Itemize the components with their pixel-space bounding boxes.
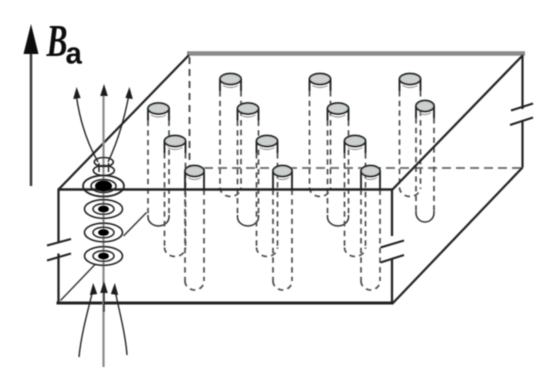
hidden rear-bottom edge: [190, 167, 521, 169]
vortex tube VC3 cap: [345, 136, 366, 153]
Ba field arrow: [30, 44, 33, 186]
break slashes front-right edge: [381, 241, 405, 263]
break slashes left edge: [47, 239, 71, 261]
vortex tube VA3 cap: [400, 74, 421, 91]
box top-left slant edge: [59, 55, 190, 190]
flux line shafts below slab: [79, 288, 127, 357]
box front-left edge (with break): [57, 190, 59, 304]
corner vortex neck ellipse 2: [93, 166, 114, 176]
corner vortex neck sides: [99, 163, 109, 172]
box front-right edge (with break): [391, 190, 393, 304]
corner vortex neck ellipse 1: [94, 158, 113, 167]
box front bottom edge: [57, 302, 394, 305]
vortex tube VB2 body: [238, 121, 259, 227]
vortex tube VC1 body: [165, 153, 186, 257]
box bottom-right slant edge: [393, 168, 523, 304]
vortex tube VB1 body: [148, 121, 169, 226]
box top rear edge: [187, 51, 525, 56]
vortex tube VA1 cap: [220, 74, 241, 91]
vortex tube VC3 body: [345, 153, 366, 257]
vortex tube VA1 body: [220, 91, 241, 197]
vortex tube VB3 body: [328, 121, 349, 226]
vortex tube VD2 cap: [273, 166, 292, 190]
vortex tube VB4 cap: [416, 101, 434, 118]
vortex tube VB4 body: [416, 118, 434, 222]
vortex tube VB3 cap: [328, 103, 349, 120]
vortex tube VB1 cap: [148, 103, 169, 120]
box rear-right edge (with break): [521, 55, 523, 168]
vortex tube VC2 cap: [257, 136, 278, 153]
hidden bottom-left edge segment 2: [124, 213, 147, 237]
vortex tube VC1 cap: [165, 136, 186, 153]
vortex tube VA3 body: [400, 91, 421, 197]
svg-text:a: a: [66, 37, 83, 71]
flux arrow shafts above slab: [77, 97, 129, 162]
flux line through corner vortex (gray): [102, 91, 104, 367]
flux arrowheads above slab: [73, 84, 133, 99]
hidden bottom-left edge segment 1: [61, 265, 96, 301]
vortex tube VD2 body: [273, 190, 292, 291]
vortex tube VB2 cap: [238, 103, 259, 120]
vortex tube VD3 cap: [361, 166, 380, 190]
vortex ring 3: [85, 223, 123, 242]
hidden rear-left vertical edge: [189, 57, 191, 167]
vortex tube VC2 body: [257, 153, 278, 257]
box front top edge: [58, 188, 394, 191]
vortex ring 2: [85, 200, 123, 219]
vortex tube VA2 body: [310, 91, 331, 197]
svg-text:B: B: [46, 17, 68, 67]
vortex tube VA2 cap: [310, 74, 331, 91]
vortex tube VD1 cap: [185, 166, 204, 190]
box top-right slant edge: [393, 55, 524, 190]
vortex tube VD3 body: [361, 190, 380, 291]
break slashes rear-right edge: [510, 104, 533, 126]
vortex tube VD1 body: [185, 190, 204, 291]
vortex ring 1 (dark core): [83, 176, 124, 197]
vortex ring 4: [85, 247, 123, 266]
flux arrowheads below slab: [90, 281, 118, 295]
